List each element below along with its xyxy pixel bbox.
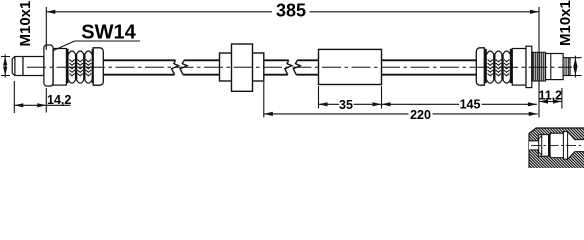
dimension 14,2 extension lines xyxy=(14,81,46,113)
left fitting thread body xyxy=(15,57,23,76)
svg-text:M10x1: M10x1 xyxy=(557,0,574,46)
icon hatch lines xyxy=(486,128,584,173)
nut body xyxy=(546,54,564,80)
port icon bottom right xyxy=(486,128,584,173)
left crimp corrugation xyxy=(67,49,93,83)
dimension 35 line xyxy=(319,103,382,105)
wire hose segment 1 xyxy=(104,60,176,74)
icon fitting hex end xyxy=(563,132,567,160)
svg-text:M10x1: M10x1 xyxy=(17,1,34,47)
dimension 385 line xyxy=(46,7,539,118)
wire hose segment 3 xyxy=(264,60,289,74)
svg-text:11,2: 11,2 xyxy=(538,88,562,102)
right crimp corrugation xyxy=(486,49,512,83)
wire hose segment 4 xyxy=(296,60,318,74)
break symbol 1 xyxy=(172,60,188,74)
clamp grommet collar xyxy=(232,44,253,91)
break symbol 2 xyxy=(285,60,301,74)
dimension 220 line xyxy=(264,113,538,115)
nut face line xyxy=(550,54,552,80)
icon fitting thread-hex boundary xyxy=(548,135,551,157)
dimension 385 arrows xyxy=(46,10,539,14)
dimension extension lines 35 145 220 11,2 xyxy=(264,82,562,118)
centerline xyxy=(27,66,572,68)
dimension 145 line xyxy=(382,103,537,105)
icon centerline xyxy=(531,144,582,146)
svg-text:220: 220 xyxy=(410,108,431,122)
right crimp end cap xyxy=(476,48,484,85)
right M10x1 thread dimension xyxy=(571,56,582,78)
svg-text:35: 35 xyxy=(339,98,353,112)
protective sleeve xyxy=(319,49,382,84)
svg-text:385: 385 xyxy=(276,1,306,21)
left fitting thread tip xyxy=(12,57,15,76)
left M10x1 thread dimension xyxy=(1,55,10,78)
svg-text:145: 145 xyxy=(460,98,481,112)
clamp grommet outer xyxy=(220,53,264,81)
right crimp flange xyxy=(526,46,532,87)
icon bore outline xyxy=(529,132,584,160)
left fitting hex flange SW14 xyxy=(44,45,53,86)
svg-text:14,2: 14,2 xyxy=(47,93,71,107)
icon block outline xyxy=(529,128,584,168)
icon bore cavity xyxy=(529,132,584,160)
wire hose segment 5 xyxy=(382,60,477,74)
dimension 11,2 line xyxy=(539,101,562,103)
svg-text:SW14: SW14 xyxy=(81,21,136,43)
icon fitting tip xyxy=(539,135,542,156)
dimension 14,2 line xyxy=(14,104,70,106)
left fitting shank xyxy=(23,57,44,76)
left crimp plain section xyxy=(53,49,66,86)
female thread stub xyxy=(563,58,570,76)
SW14 leader xyxy=(54,41,141,51)
left crimp end cap xyxy=(93,48,103,85)
right crimp plain section xyxy=(512,49,526,86)
wire hose segment 2 xyxy=(183,60,219,74)
knurl band xyxy=(532,52,546,81)
